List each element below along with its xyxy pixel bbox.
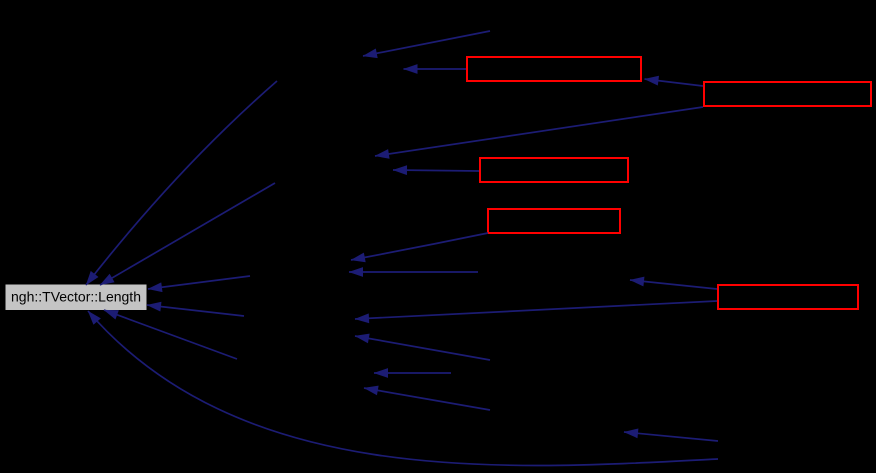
E3 (645, 79, 704, 86)
gray node ngh::TVector::Length (6, 285, 147, 311)
E5 (393, 170, 479, 171)
E1 (363, 31, 490, 56)
E8 (630, 280, 717, 289)
G4 (147, 305, 244, 316)
node box C (red, empty) (480, 158, 628, 182)
svg-text:ngh::TVector::Length: ngh::TVector::Length (11, 289, 141, 305)
edges (86, 31, 718, 465)
E6 (351, 233, 488, 260)
E13 (624, 432, 718, 441)
E12 (364, 388, 490, 410)
node box A (red, empty) (467, 57, 641, 81)
E2 (404, 68, 467, 70)
E10 (355, 336, 490, 360)
node box D (red, empty) (488, 209, 620, 233)
G6 (104, 310, 237, 359)
G2 (100, 183, 275, 285)
node box B (red, empty) (704, 82, 871, 106)
G3 (148, 276, 250, 289)
G5 big bottom curve (88, 311, 718, 465)
E11 (374, 372, 451, 374)
E4 (375, 107, 703, 156)
G1 big top curve (86, 81, 277, 285)
E7 (349, 271, 478, 273)
E9 (355, 301, 717, 319)
node box E (red, empty) (718, 285, 858, 309)
